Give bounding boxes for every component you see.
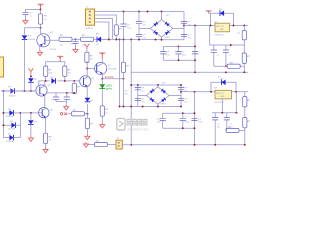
node y91 x30.5 bbox=[30, 90, 32, 92]
wire gnd to R17 bbox=[88, 144, 95, 146]
connector J3 bbox=[116, 140, 122, 149]
svg-text:LM7905CT: LM7905CT bbox=[214, 102, 225, 104]
svg-text:1N4148: 1N4148 bbox=[6, 116, 14, 118]
capacitor C2 bbox=[72, 39, 78, 47]
capacitor C16 bbox=[135, 88, 141, 90]
VEE arrow above R9 bbox=[85, 44, 90, 50]
svg-text:D?: D? bbox=[34, 121, 38, 123]
node y92.9 x66.8 bbox=[66, 92, 68, 94]
svg-text:R?: R? bbox=[90, 123, 94, 125]
resistor R8 on x74.3 bbox=[72, 81, 76, 94]
capacitor C15 bbox=[64, 93, 70, 102]
connector J2 left edge bbox=[0, 57, 4, 77]
wire SALIDA bbox=[102, 78, 123, 80]
resistor R10 below LED bbox=[100, 106, 104, 123]
mid rail y39.5 bbox=[101, 38, 184, 40]
ground below Q1 bbox=[38, 50, 43, 55]
capacitor C13 right branch bbox=[192, 52, 198, 54]
node bottom rail x132.2 bbox=[130, 144, 132, 146]
svg-text:47u: 47u bbox=[141, 101, 144, 103]
resistor R12 upper right column bbox=[243, 92, 247, 118]
diode ladder D9 bbox=[3, 122, 20, 128]
svg-text:C?: C? bbox=[51, 99, 54, 101]
node rail2 x132.2 bbox=[130, 106, 132, 108]
node rail x184 y25.5 bbox=[183, 25, 185, 27]
vertical x194.5 reg2 minus column bbox=[194, 92, 196, 145]
svg-text:100u: 100u bbox=[185, 122, 189, 124]
wire testpoint to R15 bbox=[67, 113, 71, 115]
wire J1 pin3 bbox=[99, 19, 113, 40]
node ladder x3.4 y112.9 bbox=[2, 112, 4, 114]
svg-text:R?: R? bbox=[119, 29, 123, 31]
svg-text:R?: R? bbox=[68, 69, 72, 71]
node gnd rail x244.3 bbox=[243, 71, 245, 73]
node rail3 x196 bbox=[194, 91, 196, 93]
svg-text:D?: D? bbox=[8, 109, 12, 111]
node bus2 x130.8 bbox=[130, 84, 132, 86]
svg-text:Q?: Q? bbox=[91, 78, 95, 80]
base wire Q5 bbox=[20, 112, 38, 114]
node loopB bottom right bbox=[194, 127, 196, 129]
svg-text:D?: D? bbox=[219, 9, 223, 11]
svg-text:1k: 1k bbox=[44, 19, 46, 21]
resistor R14 below Q5 bbox=[44, 133, 48, 143]
node rail x116 bbox=[115, 39, 117, 41]
diode D6 on y91 bbox=[10, 88, 14, 94]
node x87.4 y113.8 bbox=[86, 113, 88, 115]
svg-text:C?: C? bbox=[125, 90, 129, 92]
node rail x244.3 bbox=[243, 25, 245, 27]
capacitor C22 bbox=[224, 113, 230, 131]
svg-text:D?: D? bbox=[8, 134, 12, 136]
svg-text:C?: C? bbox=[237, 33, 241, 35]
capacitor C19 bbox=[178, 98, 184, 100]
node loop A top mid bbox=[178, 45, 180, 47]
svg-text:1N4148: 1N4148 bbox=[9, 95, 17, 97]
watermark icon bbox=[117, 118, 125, 130]
svg-text:1k: 1k bbox=[105, 112, 107, 114]
svg-text:U?: U? bbox=[214, 88, 218, 90]
node ladder x3.4 y125.2 bbox=[2, 124, 4, 126]
svg-text:R?: R? bbox=[247, 56, 251, 58]
svg-text:1N4148: 1N4148 bbox=[28, 39, 36, 41]
svg-text:10k: 10k bbox=[82, 45, 85, 47]
ladder right rail bbox=[19, 113, 21, 138]
svg-text:LM7805CT: LM7805CT bbox=[215, 35, 226, 37]
node bus2 x181 bbox=[180, 84, 182, 86]
svg-text:R?: R? bbox=[44, 16, 48, 18]
watermark glyphs bbox=[127, 119, 148, 126]
wire J1 pin4 bbox=[99, 22, 109, 40]
svg-text:R?: R? bbox=[77, 87, 81, 89]
node y80.9 x64.8 bbox=[64, 80, 66, 82]
diode D12 above node bbox=[85, 98, 91, 114]
node rail x109 bbox=[108, 39, 110, 41]
bridge rectifier 2 bbox=[138, 85, 181, 107]
svg-text:Q?: Q? bbox=[108, 65, 112, 67]
svg-text:100u: 100u bbox=[182, 55, 186, 57]
svg-text:D?: D? bbox=[163, 82, 167, 84]
svg-text:D?: D? bbox=[34, 79, 38, 81]
svg-text:C?: C? bbox=[217, 55, 220, 57]
capacitor C8 rounded on x244.3 bbox=[242, 26, 246, 46]
svg-text:10k: 10k bbox=[49, 73, 52, 75]
capacitor C20 on x194.5 bbox=[191, 118, 197, 120]
svg-text:Q?: Q? bbox=[48, 85, 52, 87]
node gnd rail x225.9 bbox=[225, 71, 227, 73]
svg-text:4k7: 4k7 bbox=[90, 59, 94, 61]
node y80.9 x45.7 bbox=[45, 80, 47, 82]
bypass diode D3 loop bbox=[209, 11, 234, 26]
node loopB top right bbox=[194, 112, 196, 114]
svg-text:HDR1X4: HDR1X4 bbox=[85, 28, 94, 30]
wire J1 pin1 top bus bbox=[99, 11, 185, 13]
wire y45 right column bbox=[210, 26, 245, 46]
svg-text:C?: C? bbox=[70, 99, 73, 101]
svg-text:R?: R? bbox=[82, 35, 86, 37]
svg-text:10: 10 bbox=[49, 140, 52, 142]
power VCC near reg1 bbox=[206, 11, 212, 13]
IC2 gnd stub and wire y112.7 bbox=[212, 99, 238, 113]
node rail2 x123.5 bbox=[123, 106, 125, 108]
svg-text:100n: 100n bbox=[198, 122, 202, 124]
svg-text:C?: C? bbox=[198, 119, 202, 121]
wire QC right y92.9 bbox=[47, 92, 74, 94]
svg-text:C?: C? bbox=[143, 21, 147, 23]
IC U2 LM7905 bbox=[215, 90, 232, 99]
node x123.5 y78.7 bbox=[123, 78, 125, 80]
svg-text:C?: C? bbox=[143, 34, 147, 36]
svg-text:10n: 10n bbox=[125, 94, 128, 96]
ground below C2 bbox=[73, 47, 78, 52]
power VCC top bbox=[37, 4, 43, 9]
svg-text:D?: D? bbox=[10, 121, 14, 123]
resistor R17 horizontal bbox=[94, 143, 116, 147]
node rail x139 bbox=[138, 39, 140, 41]
wire R14 to ground bbox=[45, 144, 47, 148]
svg-text:C?: C? bbox=[198, 54, 201, 56]
resistor R3 bbox=[76, 37, 97, 41]
svg-text:47u: 47u bbox=[184, 101, 187, 103]
node ladder x20.4 y112.9 bbox=[19, 112, 21, 114]
transistor Q3 (QB) bbox=[80, 62, 91, 98]
capacitor C11 left branch bbox=[160, 46, 166, 60]
node bus bridge left bbox=[138, 11, 140, 13]
node reg2 out bbox=[235, 91, 237, 93]
svg-text:SALIDA: SALIDA bbox=[105, 76, 114, 79]
capacitor C21 bbox=[212, 113, 218, 145]
node loop A bottom right bbox=[194, 59, 196, 61]
node rail x130.8 bbox=[130, 39, 132, 41]
resistor R16 below node bbox=[85, 114, 89, 134]
left column x137.8 bbox=[137, 85, 139, 107]
filter loop A bottom wire bbox=[163, 59, 195, 61]
zener D11 bbox=[28, 113, 34, 136]
diode D1 bbox=[22, 35, 28, 91]
transistor Q5 (QD) bbox=[39, 108, 49, 134]
diode D4 on x30.5 bbox=[28, 78, 34, 91]
svg-text:GBPC: GBPC bbox=[165, 37, 171, 39]
capacitor C18 bbox=[178, 88, 184, 90]
bottom rail y144.8 bbox=[131, 144, 245, 146]
svg-text:R?: R? bbox=[49, 69, 53, 71]
capacitor C17 bbox=[135, 98, 141, 100]
transistor Q2 (QC) bbox=[1, 81, 47, 108]
node y112.7 x236.3 bbox=[235, 112, 237, 114]
capacitor C1 bbox=[22, 10, 28, 19]
node y91 x24.6 bbox=[24, 90, 26, 92]
diode ladder D8 bbox=[3, 110, 20, 116]
node x30.5 y76.3 bbox=[30, 75, 32, 77]
svg-text:Q?: Q? bbox=[50, 109, 54, 111]
svg-text:D?: D? bbox=[221, 78, 225, 80]
capacitor C6 upper on x184 bbox=[181, 21, 187, 23]
LED1 green bbox=[99, 79, 105, 106]
vertical reg2 out drop bbox=[235, 92, 237, 113]
svg-text:47u: 47u bbox=[141, 91, 144, 93]
node above R1 bbox=[40, 9, 42, 11]
node y91 x3.4 bbox=[2, 90, 4, 92]
vertical x196 down bbox=[194, 26, 196, 73]
svg-text:GND: GND bbox=[220, 29, 225, 31]
resistor R15 horizontal bbox=[72, 112, 88, 116]
VEE arrow on x30.5 bbox=[29, 68, 34, 74]
svg-text:GND: GND bbox=[220, 96, 225, 98]
node gnd rail x196 bbox=[194, 71, 196, 73]
capacitor C5 lower on x139 bbox=[136, 34, 142, 39]
capacitor C23 left branch bbox=[160, 113, 166, 128]
wire base Q4 bbox=[87, 68, 95, 70]
node rail x123.5 bbox=[123, 39, 125, 41]
node bottom rail x194.5 bbox=[194, 144, 196, 146]
capacitor C10 bbox=[223, 45, 229, 66]
node rail2 x142.6 bbox=[142, 106, 144, 108]
wire C1 to R1 node bbox=[25, 9, 40, 11]
node rail x196 bbox=[194, 25, 196, 27]
node loopB top mid bbox=[182, 112, 184, 114]
svg-text:C?: C? bbox=[184, 98, 188, 100]
filter loop A top wire bbox=[163, 45, 195, 47]
node y45 bbox=[230, 44, 232, 46]
bypass diode D7 loop bbox=[211, 82, 236, 92]
bridge rectifier 1 bbox=[139, 12, 184, 40]
svg-text:1u: 1u bbox=[30, 16, 32, 18]
node y92.9 x74.3 bbox=[73, 92, 75, 94]
node bottom rail x244.8 bbox=[244, 144, 246, 146]
filter loop B top wire bbox=[163, 112, 195, 114]
ground below R16 bbox=[85, 134, 90, 139]
node Q4 base tie bbox=[86, 68, 88, 70]
resistor R11 on x123.5 bbox=[121, 40, 125, 107]
capacitor C12 mid branch bbox=[175, 46, 181, 60]
node rail bridge bottom bbox=[161, 39, 163, 41]
node y112.7 x222.3 bbox=[221, 112, 223, 114]
svg-text:2N2222A: 2N2222A bbox=[108, 67, 117, 70]
node loop A top right bbox=[194, 45, 196, 47]
ground below zener bbox=[28, 136, 33, 141]
svg-text:R?: R? bbox=[247, 100, 251, 102]
IC U1 LM7805 bbox=[215, 23, 230, 32]
wire y61.7 bbox=[46, 62, 65, 66]
rail y92.4 bbox=[181, 91, 248, 93]
svg-text:Q?: Q? bbox=[50, 32, 54, 34]
svg-text:C?: C? bbox=[229, 55, 232, 57]
svg-text:green: green bbox=[106, 88, 113, 91]
node bus2 bridge top bbox=[157, 84, 159, 86]
wire node to D1 bbox=[25, 28, 41, 35]
svg-text:C?: C? bbox=[182, 52, 186, 54]
ground below R14 bbox=[43, 147, 48, 152]
node R2/R3 bbox=[75, 38, 77, 40]
node reg1 out bbox=[233, 25, 235, 27]
svg-text:C?: C? bbox=[127, 24, 131, 26]
diode D2 bbox=[97, 37, 109, 43]
svg-text:C?: C? bbox=[141, 88, 145, 90]
bus y85 bbox=[131, 84, 181, 86]
capacitor C3 bbox=[120, 12, 126, 40]
svg-text:D?: D? bbox=[28, 36, 32, 38]
left rail x3.4 down bbox=[2, 91, 4, 138]
svg-text:R?: R? bbox=[105, 109, 109, 111]
svg-text:22k: 22k bbox=[68, 73, 71, 75]
svg-text:VIN OUT: VIN OUT bbox=[216, 26, 225, 28]
rail y25.5 bbox=[184, 25, 248, 27]
transistor Q1 bbox=[37, 28, 59, 50]
svg-text:1N4148: 1N4148 bbox=[8, 129, 16, 131]
wire J3 to bottom rail bbox=[122, 144, 131, 146]
svg-text:10u: 10u bbox=[217, 127, 220, 129]
svg-text:D?: D? bbox=[96, 34, 100, 36]
wire left edge y91 start bbox=[1, 90, 36, 92]
resistor R9 bbox=[85, 50, 89, 63]
node rail2 x181 bbox=[180, 106, 182, 108]
svg-text:10u: 10u bbox=[157, 122, 160, 124]
node bus C3 bbox=[123, 11, 125, 13]
resistor R5 horizontal bbox=[227, 64, 240, 68]
svg-text:D?: D? bbox=[90, 100, 94, 102]
resistor R7b right bbox=[63, 66, 67, 81]
node reg2 in bbox=[210, 91, 212, 93]
wire J1 pin2 bbox=[99, 15, 117, 25]
ground rail y72.3 bbox=[131, 71, 248, 73]
ground near J3 bbox=[84, 142, 89, 147]
filter loop B bottom wire bbox=[163, 127, 195, 129]
test point red bbox=[60, 113, 66, 115]
node rail x119.5 bbox=[119, 39, 121, 41]
diode D7 bbox=[222, 80, 226, 86]
svg-text:GBPC: GBPC bbox=[161, 104, 167, 106]
capacitor C7 lower on x184 bbox=[181, 34, 187, 36]
capacitor C9 bbox=[211, 45, 217, 66]
diode D5 on y80.9 bbox=[51, 78, 55, 84]
power VCC above Q4 bbox=[99, 53, 105, 58]
node bus bridge top bbox=[161, 11, 163, 13]
base wire y80.9 bbox=[39, 81, 80, 85]
resistor R12b lower right column bbox=[243, 118, 247, 145]
svg-text:R?: R? bbox=[49, 136, 53, 138]
resistor R7a left bbox=[44, 66, 48, 81]
svg-text:C?: C? bbox=[184, 88, 188, 90]
rail y106.5 bbox=[120, 106, 182, 108]
svg-text:C?: C? bbox=[141, 98, 145, 100]
node rail3 x181 bbox=[180, 91, 182, 93]
resistor R2 bbox=[59, 37, 76, 41]
node bottom rail x215.2 bbox=[214, 144, 216, 146]
svg-text:VIN OUT: VIN OUT bbox=[216, 93, 225, 95]
node rail x155 bbox=[155, 39, 157, 41]
node bus x147 bbox=[147, 11, 149, 13]
diode D3 bbox=[220, 10, 224, 16]
svg-text:47u: 47u bbox=[143, 24, 146, 26]
ground below R10 bbox=[100, 123, 105, 128]
wire y66.2 bbox=[214, 65, 245, 67]
resistor R13 horizontal low bbox=[226, 128, 245, 132]
wire x30.5 chain bbox=[30, 74, 32, 78]
svg-text:J?: J? bbox=[86, 7, 89, 9]
node rail2 bridge bottom bbox=[157, 106, 159, 108]
svg-text:D?: D? bbox=[51, 77, 55, 79]
svg-text:R?: R? bbox=[60, 35, 64, 37]
svg-text:C?: C? bbox=[188, 21, 192, 23]
node rail2 x119.5 bbox=[119, 106, 121, 108]
svg-text:2k2: 2k2 bbox=[60, 45, 64, 47]
svg-text:D?: D? bbox=[9, 87, 13, 89]
resistor R4 on pin2 drop bbox=[114, 25, 118, 40]
resistor R1 bbox=[38, 10, 42, 28]
svg-text:10u: 10u bbox=[166, 55, 169, 57]
bridge right column x184 bbox=[183, 12, 185, 40]
svg-text:100n: 100n bbox=[127, 27, 131, 29]
ground below C1 bbox=[23, 19, 28, 24]
power VCC mid bbox=[57, 56, 63, 61]
node loopB bottom mid bbox=[182, 127, 184, 129]
resistor R6 vertical right column bbox=[242, 45, 246, 72]
svg-text:INTERNET.NET: INTERNET.NET bbox=[127, 127, 149, 131]
long vertical x119.5 bbox=[119, 40, 121, 107]
capacitor C14 bbox=[53, 93, 59, 102]
svg-text:BD140: BD140 bbox=[50, 49, 57, 51]
svg-text:D?: D? bbox=[167, 15, 171, 17]
node bus2 x137.8 bbox=[137, 84, 139, 86]
wire caps join bbox=[56, 102, 67, 105]
svg-text:C?: C? bbox=[166, 52, 170, 54]
node y80.9 x74.3 bbox=[73, 80, 75, 82]
svg-text:C?: C? bbox=[30, 12, 34, 14]
svg-text:R?: R? bbox=[127, 65, 131, 67]
svg-text:R?: R? bbox=[247, 121, 251, 123]
svg-text:C?: C? bbox=[188, 34, 192, 36]
right column x181 bbox=[180, 85, 182, 107]
svg-text:1N: 1N bbox=[96, 44, 99, 46]
node collector Q1 bbox=[40, 27, 42, 29]
transistor Q4 (QA) bbox=[95, 56, 107, 78]
node y66.2 bbox=[225, 65, 227, 67]
svg-text:C?: C? bbox=[185, 116, 188, 118]
node emitter Q4 bbox=[101, 78, 103, 80]
capacitor C4 upper on x139 bbox=[136, 12, 142, 35]
node loop A bottom mid bbox=[178, 59, 180, 61]
node reg1 in bbox=[210, 25, 212, 27]
svg-text:R?: R? bbox=[90, 55, 94, 57]
svg-text:1N4148: 1N4148 bbox=[6, 141, 14, 143]
vertical x131.2 long bbox=[130, 40, 132, 145]
node x30.9 y112.9 bbox=[30, 112, 32, 114]
svg-text:47u: 47u bbox=[188, 37, 191, 39]
capacitor C24 mid branch bbox=[180, 113, 186, 128]
diode ladder D10 bbox=[3, 135, 20, 141]
ground below caps bbox=[64, 105, 69, 110]
connector J1 bbox=[86, 9, 99, 25]
